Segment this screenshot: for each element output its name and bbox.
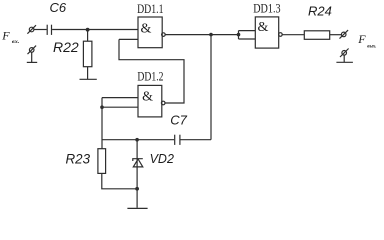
svg-text:C6: C6 — [50, 0, 67, 15]
svg-text:R22: R22 — [53, 39, 79, 55]
svg-text:C7: C7 — [170, 113, 187, 128]
op-amp U3: NAND gate DD1.3 — [253, 1, 282, 49]
wire — [52, 29, 138, 31]
svg-text:&: & — [258, 20, 269, 35]
svg-text:R23: R23 — [66, 150, 91, 166]
svg-text:DD1.2: DD1.2 — [137, 69, 163, 84]
op-amp U1: NAND gate DD1.1 — [137, 1, 165, 48]
ground — [127, 207, 147, 209]
terminal X4 (output ground) — [340, 49, 349, 58]
node junction — [135, 187, 139, 191]
wire DD1.3 output — [282, 34, 304, 36]
ground — [336, 61, 353, 63]
node F_in label — [1, 29, 19, 45]
svg-text:вх.: вх. — [12, 40, 20, 45]
svg-text:F: F — [1, 29, 10, 43]
wire input tie down to R23 — [101, 98, 103, 149]
wire feedback — [119, 39, 184, 103]
terminal X1 (input signal) — [27, 25, 36, 34]
wire C7 line right — [181, 139, 212, 141]
wire vertical to DD1.1 output — [210, 35, 212, 140]
resistor R24 — [304, 4, 332, 40]
ground — [80, 78, 97, 80]
wire DD1.2 top input — [102, 97, 138, 99]
resistor R23 — [66, 149, 106, 174]
svg-text:F: F — [357, 32, 366, 46]
terminal X3 (output signal) — [340, 30, 349, 38]
node junction — [100, 105, 104, 109]
wire — [87, 67, 89, 80]
wire R23 bottom — [102, 173, 137, 188]
resistor R22 — [53, 39, 92, 66]
svg-text:вых.: вых. — [367, 45, 376, 50]
wire DD1.1 bottom input — [119, 38, 138, 40]
svg-text:DD1.3: DD1.3 — [253, 1, 280, 16]
wire DD1.3 top input — [239, 30, 256, 32]
capacitor C6 — [47, 0, 67, 35]
svg-text:VD2: VD2 — [150, 152, 174, 166]
node junction at R22 — [86, 28, 90, 32]
wire DD1.1 output — [165, 34, 238, 36]
terminal X2 (input ground) — [28, 46, 37, 55]
wire VD2 vertical — [136, 140, 138, 208]
svg-text:DD1.1: DD1.1 — [137, 1, 163, 16]
wire C7 line left — [102, 139, 174, 141]
ground — [27, 61, 37, 63]
wire — [31, 52, 33, 62]
wire — [87, 30, 89, 42]
node junction — [237, 33, 241, 37]
wire — [330, 34, 342, 36]
wire — [343, 55, 345, 62]
svg-text:&: & — [140, 21, 151, 36]
svg-text:&: & — [142, 89, 153, 104]
wire DD1.3 input tie — [238, 31, 240, 39]
svg-text:R24: R24 — [308, 4, 332, 19]
node junction — [209, 33, 213, 37]
node junction VD2 top — [135, 138, 139, 142]
wire DD1.2 bottom input — [102, 106, 138, 108]
node F_out label — [357, 32, 376, 50]
wire — [34, 29, 47, 31]
op-amp U2: NAND gate DD1.2 — [137, 69, 165, 117]
capacitor C7 — [170, 113, 187, 145]
diode VD2 (zener) — [133, 152, 174, 167]
wire DD1.3 bottom input — [239, 38, 256, 40]
